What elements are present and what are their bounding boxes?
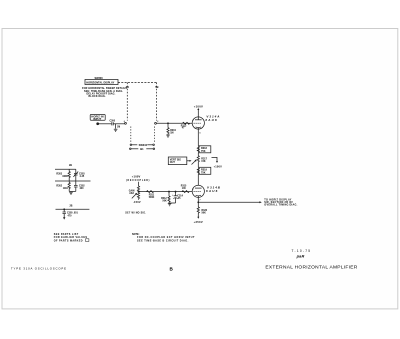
svg-text:2B: 2B	[69, 165, 72, 167]
svg-text:75K: 75K	[201, 171, 206, 174]
svg-text:BLOCK DIAG.: BLOCK DIAG.	[89, 95, 107, 98]
svg-text:6AU6: 6AU6	[205, 118, 217, 122]
svg-text:1M: 1M	[170, 132, 173, 134]
svg-text:2B: 2B	[70, 205, 73, 207]
svg-text:1M: 1M	[117, 127, 120, 129]
svg-text:C305 .001: C305 .001	[67, 213, 78, 215]
svg-text:paR: paR	[296, 253, 305, 258]
svg-text:15K: 15K	[201, 161, 206, 163]
svg-text:75K: 75K	[201, 150, 206, 153]
svg-text:OVERALL TIMING DIAG.: OVERALL TIMING DIAG.	[264, 204, 297, 207]
svg-text:SEE TIME-BASE B CIRCUIT DIAG.: SEE TIME-BASE B CIRCUIT DIAG.	[137, 239, 189, 242]
svg-text:900K: 900K	[62, 176, 68, 178]
svg-text:SW310: SW310	[139, 143, 148, 147]
svg-text:56K: 56K	[202, 212, 207, 214]
svg-text:TYPE 310A OSCILLOSCOPE: TYPE 310A OSCILLOSCOPE	[11, 267, 67, 271]
svg-text:C314: C314	[177, 194, 183, 197]
svg-text:SW300: SW300	[95, 77, 104, 80]
svg-text:SET W/ NO SIG.: SET W/ NO SIG.	[125, 212, 146, 214]
svg-text:111K: 111K	[63, 188, 69, 190]
svg-text:OUT: OUT	[170, 161, 176, 164]
svg-text:+100V: +100V	[214, 164, 223, 168]
svg-text:+100V: +100V	[194, 104, 203, 108]
svg-text:B1: B1	[140, 147, 144, 151]
svg-text:HORIZONTAL DISPLAY: HORIZONTAL DISPLAY	[86, 80, 114, 84]
svg-text:+250V: +250V	[194, 220, 203, 224]
svg-text:2: 2	[157, 121, 158, 123]
svg-text:7: 7	[193, 120, 194, 122]
svg-text:-150V: -150V	[133, 200, 141, 204]
svg-text:INPUT: INPUT	[93, 117, 102, 121]
svg-text:5B: 5B	[155, 85, 158, 89]
svg-text:(DECOUPLED): (DECOUPLED)	[126, 180, 150, 182]
svg-text:2: 2	[193, 188, 194, 190]
svg-text:+100V: +100V	[132, 174, 141, 178]
svg-text:C300: C300	[110, 121, 116, 123]
svg-text:6AU6: 6AU6	[206, 189, 218, 193]
svg-text:500K: 500K	[149, 197, 155, 199]
svg-text:6: 6	[124, 121, 125, 123]
svg-text:4-25: 4-25	[80, 175, 85, 178]
svg-text:ADJ: ADJ	[129, 192, 134, 195]
svg-text:EXTERNAL HORIZONTAL AMPLIFIER: EXTERNAL HORIZONTAL AMPLIFIER	[265, 264, 357, 270]
svg-text:50K: 50K	[162, 200, 167, 202]
svg-text:OF PARTS MARKED: OF PARTS MARKED	[54, 239, 83, 242]
svg-text:2A: 2A	[126, 85, 129, 89]
svg-text:7: 7	[200, 200, 201, 202]
svg-text:5: 5	[200, 133, 201, 135]
